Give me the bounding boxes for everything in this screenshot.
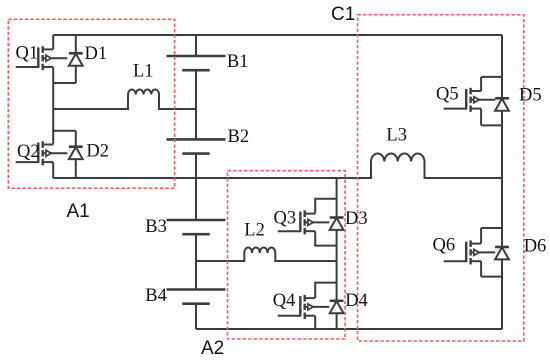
wire bottom bus (196, 328, 502, 330)
svg-text:Q1: Q1 (16, 44, 39, 64)
svg-text:B2: B2 (228, 127, 250, 147)
wire battery column top (195, 35, 197, 56)
battery B3 (167, 220, 226, 234)
svg-text:B4: B4 (145, 286, 167, 306)
wire A2 rail upper (336, 178, 338, 218)
svg-text:Q4: Q4 (273, 291, 296, 311)
transistor Q6 (444, 240, 496, 264)
wire C1 rail upper (501, 35, 503, 98)
wire A2 rail lower (336, 313, 338, 329)
wire Q3 source link (315, 231, 336, 245)
diode D4 (330, 301, 344, 313)
wire Q6 source link (481, 261, 502, 276)
module box A1 (8, 19, 174, 188)
transistor Q1 (16, 46, 68, 70)
wire battery column bottom (195, 304, 197, 330)
battery B4 (167, 290, 226, 304)
svg-text:D6: D6 (524, 237, 547, 257)
wire Q3 drain link (315, 199, 336, 214)
svg-text:L3: L3 (386, 126, 407, 146)
svg-text:D1: D1 (85, 44, 108, 64)
wire D1 bottom link (53, 82, 76, 84)
module box A2 (228, 171, 346, 339)
wire D2 top link (53, 130, 76, 132)
wire mid bus with inductor L3 hump (53, 154, 502, 178)
svg-text:Q2: Q2 (17, 142, 40, 162)
svg-text:D3: D3 (345, 209, 368, 229)
diode D2 (69, 147, 83, 159)
wire A2 rail middle (336, 230, 338, 301)
inductor L2 (196, 248, 337, 262)
svg-text:Q6: Q6 (433, 236, 456, 256)
diode D3 (330, 218, 344, 230)
svg-text:B3: B3 (145, 217, 167, 237)
svg-text:A2: A2 (201, 338, 224, 359)
svg-text:A1: A1 (67, 201, 90, 222)
wire Q5 drain link (481, 77, 502, 91)
wire battery column B2-B3 (195, 154, 197, 221)
inductor L1 (53, 90, 196, 110)
svg-text:D5: D5 (519, 86, 542, 106)
diode D5 (495, 98, 509, 110)
wire C1 rail lower (501, 259, 503, 329)
wire Q5 source link (481, 109, 502, 126)
transistor Q4 (278, 295, 330, 319)
wire top bus (53, 34, 502, 36)
svg-text:C1: C1 (331, 4, 355, 25)
svg-text:B1: B1 (227, 52, 249, 72)
svg-text:Q3: Q3 (274, 209, 297, 229)
wire Q6 drain link (481, 228, 502, 244)
svg-text:D4: D4 (345, 291, 368, 311)
wire D2 anode drop (75, 159, 77, 178)
svg-text:Q5: Q5 (436, 85, 459, 105)
transistor Q3 (278, 210, 330, 234)
wire battery column B3-B4 (195, 235, 197, 290)
wire Q4 source link (314, 316, 316, 329)
wire D1 anode drop (75, 66, 77, 83)
module box C1 (358, 15, 524, 341)
wire C1 rail middle (501, 111, 503, 247)
wire battery column B1-B2 (195, 70, 197, 139)
wire left half-bridge rail (52, 35, 54, 49)
wire D1 cathode riser (75, 35, 77, 53)
battery B1 (167, 56, 226, 70)
svg-text:D2: D2 (86, 142, 109, 162)
svg-text:L2: L2 (244, 221, 265, 241)
transistor Q2 (16, 141, 68, 165)
transistor Q5 (444, 88, 496, 112)
svg-text:L1: L1 (133, 61, 154, 81)
battery B2 (167, 139, 226, 153)
wire Q4 drain link (315, 283, 336, 299)
wire D2 cathode riser (75, 131, 77, 147)
diode D6 (495, 247, 509, 259)
diode D1 (69, 53, 83, 65)
